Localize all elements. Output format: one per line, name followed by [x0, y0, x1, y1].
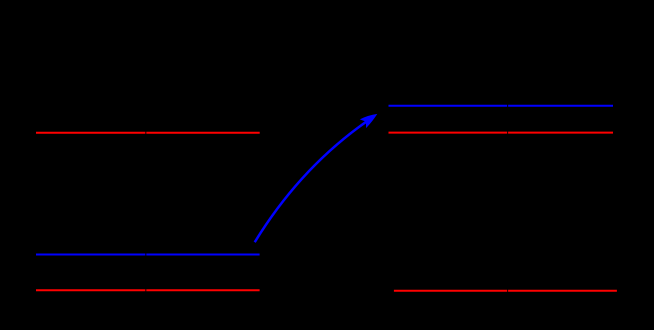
transition arrow head	[360, 114, 378, 128]
energy level E5 right (red), segment a	[389, 132, 508, 134]
energy level E6 right lower (red), segment b	[508, 290, 617, 292]
energy level E4 right (blue), segment b	[508, 105, 613, 107]
energy level E1 left (red), segment b	[146, 132, 259, 134]
energy level E5 right (red), segment b	[508, 132, 613, 134]
energy level E2 left (blue), segment a	[36, 254, 145, 256]
transition arrow shaft (blue curved)	[255, 116, 375, 242]
energy level E6 right lower (red), segment a	[394, 290, 507, 292]
energy level E1 left (red), segment a	[36, 132, 145, 134]
energy level E2 left (blue), segment b	[146, 254, 259, 256]
energy level E4 right (blue), segment a	[389, 105, 508, 107]
energy level E3 left (red), segment a	[36, 289, 145, 291]
energy level E3 left (red), segment b	[146, 289, 259, 291]
